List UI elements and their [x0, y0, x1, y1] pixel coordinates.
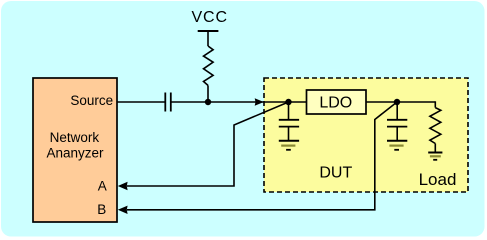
ground C3	[387, 141, 407, 150]
Source port label	[70, 93, 113, 108]
port A label	[98, 179, 107, 194]
port B label	[97, 202, 106, 217]
ground C2	[279, 141, 299, 150]
Load label	[419, 170, 457, 189]
svg-text:Network: Network	[50, 130, 100, 145]
node LDO input	[285, 99, 291, 105]
resistor R2 load	[430, 108, 441, 144]
svg-text:Ananyzer: Ananyzer	[46, 145, 104, 160]
capacitor C1 series	[165, 93, 171, 112]
ground load	[428, 153, 442, 160]
op-amp U2 LDO box	[307, 90, 367, 114]
svg-text:Load: Load	[419, 170, 457, 189]
wire LDO output to load	[366, 101, 435, 103]
DUT label	[319, 165, 352, 182]
svg-text:VCC: VCC	[191, 9, 227, 26]
Network Analyzer box U1	[33, 78, 117, 222]
capacitor C2 input	[279, 120, 299, 127]
arrow into port A	[118, 182, 128, 190]
wire resistor to node	[207, 85, 209, 102]
arrow into DUT	[255, 98, 264, 106]
wire capacitor to LDO input	[171, 101, 307, 103]
wire feedback to port A	[127, 102, 289, 186]
DUT dashed box	[264, 78, 468, 192]
wire into load resistor	[434, 101, 436, 107]
arrow into port B	[118, 206, 128, 214]
svg-text:Source: Source	[70, 93, 113, 108]
wire load resistor to ground	[434, 144, 436, 153]
wire capacitor C2 to ground	[288, 127, 290, 140]
VCC rail bar	[198, 30, 219, 32]
VCC label	[191, 9, 227, 26]
svg-text:LDO: LDO	[319, 94, 352, 111]
wire node to capacitor C2	[288, 102, 290, 119]
wire Source to capacitor	[117, 101, 165, 103]
wire node to capacitor C3	[396, 102, 398, 119]
node LDO output	[394, 99, 400, 105]
Network Ananyzer label	[46, 130, 104, 160]
wire VCC to resistor	[207, 31, 209, 46]
capacitor C3 output	[387, 120, 407, 127]
svg-text:B: B	[97, 202, 106, 217]
node VCC junction	[205, 99, 211, 105]
wire feedback to port B	[127, 102, 397, 210]
svg-text:DUT: DUT	[319, 165, 352, 182]
svg-text:A: A	[98, 179, 107, 194]
resistor R1	[204, 46, 214, 85]
wire capacitor C3 to ground	[396, 127, 398, 140]
